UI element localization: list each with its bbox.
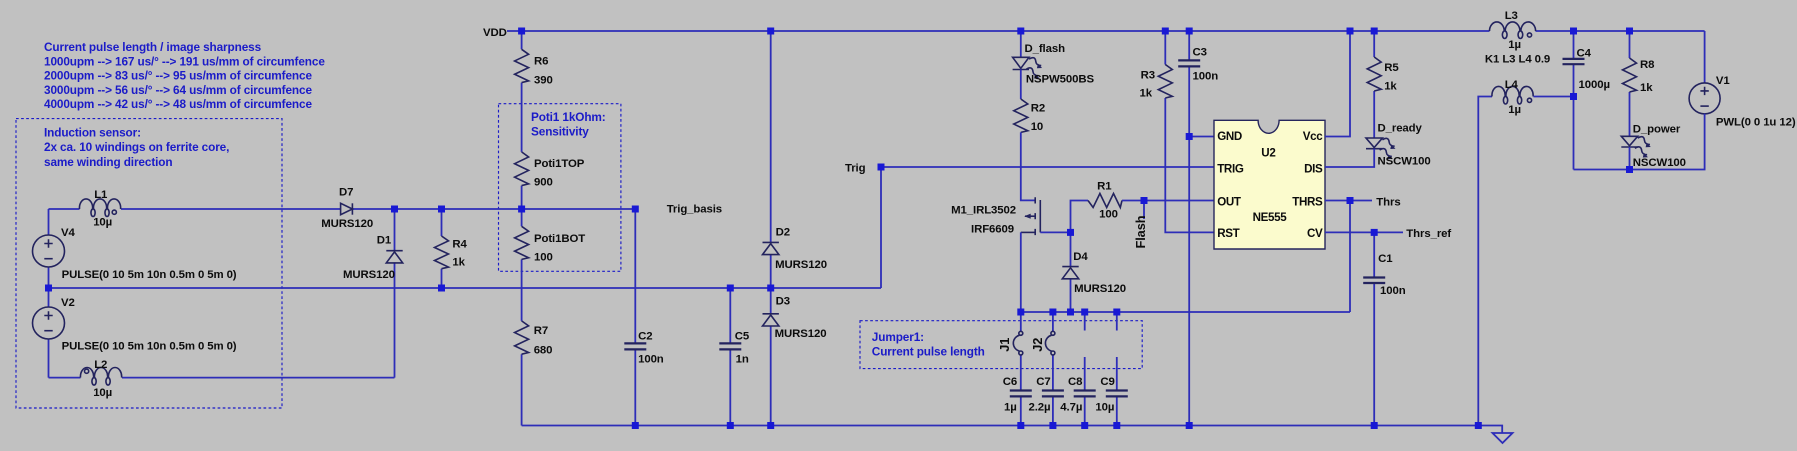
LED D_power arrows [1633, 135, 1653, 160]
svg-text:680: 680 [534, 345, 553, 357]
node Trig_basis anchor [632, 206, 639, 213]
wire Flash label stub [1143, 201, 1145, 220]
wire D4 leads [1070, 232, 1072, 312]
svg-text:J1: J1 [997, 338, 1012, 352]
junction gate/R1/D4 [1067, 229, 1074, 236]
junction VDD/D_flash [1017, 28, 1024, 35]
junction row2/R4 [438, 285, 445, 292]
svg-text:K1 L3 L4 0.9: K1 L3 L4 0.9 [1485, 54, 1550, 66]
wire C1 column [1373, 232, 1375, 425]
svg-text:C4: C4 [1577, 48, 1592, 60]
svg-text:Induction sensor:: Induction sensor: [44, 126, 141, 140]
diode D3 [763, 313, 779, 315]
svg-text:D4: D4 [1073, 251, 1088, 263]
junction row1/D1 [391, 206, 398, 213]
svg-text:1µ: 1µ [1508, 104, 1521, 116]
svg-text:1000µ: 1000µ [1579, 79, 1610, 91]
svg-text:C8: C8 [1068, 376, 1082, 388]
svg-text:L2: L2 [94, 359, 107, 371]
svg-text:4000upm --> 42 us/° --> 48 us/: 4000upm --> 42 us/° --> 48 us/mm of circ… [44, 97, 312, 111]
svg-text:V1: V1 [1716, 75, 1730, 87]
diode D1 [386, 250, 402, 252]
diode D4 [1062, 266, 1078, 268]
svg-text:C7: C7 [1036, 376, 1050, 388]
junction gnd/L4 [1475, 422, 1482, 429]
svg-text:10µ: 10µ [93, 217, 112, 229]
wire left sensor rail [48, 209, 50, 378]
junction gnd/C9 [1113, 422, 1120, 429]
svg-text:D2: D2 [776, 227, 790, 239]
comment box: Poti1 sensitivity [499, 104, 621, 272]
wire trig row [881, 166, 1214, 168]
junction row2/C5 [727, 285, 734, 292]
svg-text:NSCW100: NSCW100 [1633, 157, 1686, 169]
svg-text:Poti1BOT: Poti1BOT [534, 233, 585, 245]
wire THRS pin row [1325, 200, 1372, 202]
svg-text:Flash: Flash [1133, 215, 1148, 248]
svg-text:1k: 1k [1640, 82, 1653, 94]
resistor Poti1BOT [515, 226, 529, 259]
junction L4/C4 node [1570, 93, 1577, 100]
svg-text:1n: 1n [736, 354, 749, 366]
capacitor C6 [1010, 389, 1032, 391]
wire J2 stubs [1052, 312, 1054, 426]
capacitor C4 [1563, 58, 1585, 60]
svg-text:1µ: 1µ [1508, 39, 1521, 51]
svg-text:OUT: OUT [1217, 196, 1241, 209]
svg-text:RST: RST [1217, 227, 1239, 240]
voltage source V1 [1689, 83, 1720, 114]
comment box: Jumper1 current pulse length [860, 321, 1142, 369]
junction gnd/C2 [632, 422, 639, 429]
svg-text:MURS120: MURS120 [775, 328, 827, 340]
svg-text:MURS120: MURS120 [321, 218, 373, 230]
svg-text:100: 100 [534, 252, 553, 264]
junction rail3/C8 [1081, 309, 1088, 316]
wire D2 column [770, 31, 772, 288]
wire C9 column [1116, 312, 1118, 426]
svg-text:M1_IRL3502: M1_IRL3502 [951, 205, 1016, 217]
wire L4 left column to ground rail [1478, 97, 1492, 426]
wire D1 cathode to row1 [394, 209, 396, 251]
voltage source V2 [33, 307, 65, 339]
svg-text:R1: R1 [1097, 181, 1112, 193]
wire D_flash to R2 [1020, 70, 1022, 100]
wire D_power to bottom loop [1629, 147, 1631, 170]
junction rail3/D4 [1067, 309, 1074, 316]
junction VDD/Vcc [1347, 28, 1354, 35]
svg-text:3000upm --> 56 us/° --> 64 us/: 3000upm --> 56 us/° --> 64 us/mm of circ… [44, 83, 312, 97]
svg-text:R3: R3 [1141, 70, 1155, 82]
node Flash anchor [1141, 197, 1148, 204]
wire sensor mid row (row2) [49, 167, 882, 288]
svg-text:C2: C2 [638, 331, 652, 343]
svg-text:Trig_basis: Trig_basis [667, 203, 722, 215]
junction gnd/D3 [767, 422, 774, 429]
wire V1 top lead [1704, 31, 1706, 83]
op-amp U2 NE555 body [1214, 120, 1325, 249]
capacitor C2 [624, 342, 646, 344]
junction row2/V-mid [45, 285, 52, 292]
junction rail3/C9 [1113, 309, 1120, 316]
svg-text:D1: D1 [377, 235, 392, 247]
svg-text:PWL(0 0 1u 12): PWL(0 0 1u 12) [1716, 117, 1796, 129]
LED D_ready arrows [1378, 137, 1398, 162]
junction gnd/C5 [727, 422, 734, 429]
wire CV pin row [1325, 231, 1403, 233]
svg-text:1k: 1k [452, 256, 465, 268]
svg-text:Poti1TOP: Poti1TOP [534, 158, 585, 170]
svg-text:L4: L4 [1505, 79, 1519, 91]
wire R3 column [1165, 31, 1214, 232]
junction gnd/C1 [1371, 422, 1378, 429]
svg-text:2x ca. 10 windings on ferrite: 2x ca. 10 windings on ferrite core, [44, 140, 229, 154]
svg-text:C1: C1 [1378, 253, 1393, 265]
svg-text:R8: R8 [1640, 59, 1654, 71]
wire R5 leads [1373, 31, 1375, 138]
svg-text:DIS: DIS [1304, 162, 1323, 175]
capacitor C9 [1106, 389, 1128, 391]
resistor R3 [1158, 65, 1172, 99]
junction VDD/R3 [1162, 28, 1169, 35]
junction GND pin/C3 [1186, 133, 1193, 140]
wire VDD rail [507, 30, 1705, 32]
wire R8 leads [1629, 31, 1631, 136]
svg-text:D_power: D_power [1633, 123, 1681, 135]
junction D_power/bottom loop [1626, 166, 1633, 173]
svg-text:J2: J2 [1030, 338, 1045, 352]
junction VDD/C4 [1570, 28, 1577, 35]
svg-text:NSPW500BS: NSPW500BS [1026, 74, 1095, 86]
svg-text:R6: R6 [534, 56, 548, 68]
wire C4 column [1573, 31, 1575, 170]
inductor L2 [80, 367, 121, 385]
svg-text:Thrs: Thrs [1376, 196, 1400, 208]
svg-text:100n: 100n [1380, 285, 1406, 297]
wire R6-Poti-R7 column [521, 31, 523, 426]
svg-text:V2: V2 [61, 297, 75, 309]
junction gnd/555 [1186, 422, 1193, 429]
svg-text:Sensitivity: Sensitivity [531, 125, 589, 139]
svg-text:100n: 100n [638, 354, 664, 366]
svg-text:D3: D3 [776, 296, 790, 308]
svg-text:MURS120: MURS120 [343, 269, 395, 281]
svg-text:U2: U2 [1261, 147, 1275, 160]
wire C5 column [729, 288, 731, 426]
svg-text:1µ: 1µ [1004, 402, 1017, 414]
wire sensor bottom row (L2 row) [49, 262, 395, 377]
transistor M1 (NMOS) [1034, 197, 1036, 235]
svg-text:D7: D7 [339, 187, 353, 199]
junction VDD/D2 [767, 28, 774, 35]
capacitor C3 [1178, 59, 1200, 61]
svg-text:Thrs_ref: Thrs_ref [1406, 228, 1451, 240]
capacitor C7 [1042, 389, 1064, 391]
svg-text:same winding direction: same winding direction [44, 155, 172, 169]
svg-text:MURS120: MURS120 [775, 259, 827, 271]
wire GND pin stub [1189, 136, 1214, 138]
svg-text:C5: C5 [735, 331, 750, 343]
inductor L3 [1490, 22, 1536, 39]
junction gnd/C6 [1017, 422, 1024, 429]
inductor L1 [79, 199, 120, 217]
wire source/threshold rail [1021, 201, 1350, 313]
wire R4 leads [441, 209, 443, 288]
svg-text:C6: C6 [1003, 376, 1017, 388]
junction rail3/J2 [1049, 309, 1056, 316]
svg-text:Trig: Trig [845, 163, 866, 175]
wire D_ready to DIS pin [1325, 149, 1374, 167]
svg-text:C9: C9 [1100, 376, 1114, 388]
svg-text:Current pulse length / image s: Current pulse length / image sharpness [44, 40, 262, 54]
svg-text:IRF6609: IRF6609 [971, 224, 1014, 236]
svg-text:PULSE(0 10 5m 10n 0.5m 0 5m 0): PULSE(0 10 5m 10n 0.5m 0 5m 0) [62, 269, 237, 281]
resistor Poti1TOP [515, 152, 529, 186]
resistor R8 [1623, 58, 1637, 92]
svg-text:L3: L3 [1505, 10, 1518, 22]
svg-text:TRIG: TRIG [1217, 162, 1244, 175]
capacitor C5 [719, 342, 741, 344]
ground [1493, 433, 1513, 443]
wire C8 column [1084, 312, 1086, 426]
junction row2/D2-D3 [767, 285, 774, 292]
svg-text:100n: 100n [1193, 71, 1219, 83]
resistor R6 [515, 49, 529, 82]
svg-text:R2: R2 [1031, 103, 1045, 115]
junction VDD/R8 [1626, 28, 1633, 35]
inductor L4 [1492, 86, 1533, 104]
wire sensor top row (row1) [49, 208, 637, 210]
svg-text:1k: 1k [1140, 88, 1153, 100]
capacitor C1 [1363, 276, 1385, 278]
junction CV/C1 [1371, 229, 1378, 236]
svg-text:10µ: 10µ [93, 387, 112, 399]
resistor R1 [1088, 194, 1122, 208]
svg-text:10: 10 [1031, 121, 1043, 133]
voltage source V4 [33, 235, 65, 267]
junction THRS/rail [1347, 197, 1354, 204]
wire C3-GND column [1188, 31, 1190, 426]
svg-text:CV: CV [1307, 227, 1323, 240]
svg-text:4.7µ: 4.7µ [1060, 402, 1082, 414]
svg-text:C3: C3 [1193, 46, 1207, 58]
svg-text:R5: R5 [1384, 62, 1399, 74]
junction row1/R4 [438, 206, 445, 213]
resistor R5 [1367, 57, 1381, 91]
junction row1/Poti [518, 206, 525, 213]
jumper J1 [1019, 331, 1023, 335]
svg-text:R4: R4 [452, 239, 467, 251]
svg-text:D_flash: D_flash [1025, 43, 1066, 55]
wire ground rail [522, 426, 1503, 434]
resistor R2 [1014, 99, 1028, 132]
svg-text:MURS120: MURS120 [1074, 283, 1126, 295]
svg-text:V4: V4 [61, 227, 75, 239]
wire R2 to M1 drain [1021, 132, 1035, 200]
svg-text:2000upm --> 83 us/° --> 95 us/: 2000upm --> 83 us/° --> 95 us/mm of circ… [44, 69, 312, 83]
svg-text:100: 100 [1099, 209, 1118, 221]
wire R1 to OUT pin [1122, 200, 1214, 202]
wire D_flash anode [1020, 31, 1022, 57]
svg-text:THRS: THRS [1292, 196, 1323, 209]
junction gnd/C7 [1049, 422, 1056, 429]
wire D3 column [770, 288, 772, 426]
LED D_flash arrows [1024, 56, 1044, 81]
wire L4 to C4 node [1534, 96, 1574, 98]
svg-text:900: 900 [534, 177, 553, 189]
diode D7 [341, 203, 353, 214]
resistor R7 [515, 321, 529, 354]
junction rail3/M1 source [1017, 309, 1024, 316]
wire V1 bottom loop [1574, 114, 1705, 170]
junction gnd/C8 [1081, 422, 1088, 429]
wire J1 stubs [1020, 312, 1022, 426]
junction VDD/R5 [1371, 28, 1378, 35]
svg-text:Vcc: Vcc [1303, 130, 1323, 143]
svg-text:Jumper1:: Jumper1: [872, 330, 924, 344]
wire M1 gate to R1 node [1040, 201, 1088, 233]
junction VDD/R6 [518, 28, 525, 35]
svg-text:NE555: NE555 [1253, 211, 1288, 224]
svg-text:1k: 1k [1384, 81, 1397, 93]
svg-text:PULSE(0 10 5m 10n 0.5m 0 5m 0): PULSE(0 10 5m 10n 0.5m 0 5m 0) [62, 341, 237, 353]
node Trig anchor [878, 164, 885, 171]
wire C2 column [634, 209, 636, 426]
svg-text:10µ: 10µ [1095, 402, 1114, 414]
svg-text:GND: GND [1217, 130, 1242, 143]
junction VDD/C3 [1186, 28, 1193, 35]
capacitor C8 [1074, 389, 1096, 391]
resistor R4 [435, 236, 449, 269]
svg-text:NSCW100: NSCW100 [1378, 156, 1431, 168]
LED D_power [1621, 136, 1637, 146]
LED D_flash [1013, 57, 1029, 68]
LED D_ready [1366, 138, 1382, 148]
svg-text:L1: L1 [94, 189, 108, 201]
svg-text:D_ready: D_ready [1378, 122, 1423, 134]
svg-text:R7: R7 [534, 325, 548, 337]
svg-text:Current pulse length: Current pulse length [872, 345, 985, 359]
diode D2 [763, 241, 779, 243]
wire Vcc pin to VDD [1325, 31, 1350, 137]
svg-text:Poti1 1kOhm:: Poti1 1kOhm: [531, 110, 606, 124]
svg-text:2.2µ: 2.2µ [1029, 402, 1051, 414]
svg-text:390: 390 [534, 75, 553, 87]
svg-text:VDD: VDD [483, 27, 507, 39]
comment box: induction sensor [16, 119, 282, 408]
svg-text:1000upm --> 167 us/° --> 191 u: 1000upm --> 167 us/° --> 191 us/mm of ci… [44, 54, 325, 68]
jumper J2 [1051, 331, 1055, 335]
